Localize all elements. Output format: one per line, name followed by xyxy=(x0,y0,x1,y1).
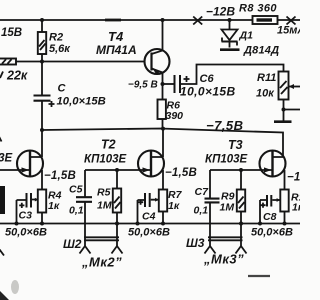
svg-text:КП103Е: КП103Е xyxy=(84,154,127,166)
svg-text:22к: 22к xyxy=(6,69,28,83)
svg-text:0,1: 0,1 xyxy=(194,205,209,217)
svg-text:50,0×6В: 50,0×6В xyxy=(251,227,293,239)
svg-text:−1,5В: −1,5В xyxy=(165,167,197,179)
svg-text:390: 390 xyxy=(166,110,184,122)
svg-text:С3: С3 xyxy=(19,210,33,222)
svg-text:5,6к: 5,6к xyxy=(49,43,71,55)
svg-text:Д814Д: Д814Д xyxy=(243,45,279,57)
svg-text:С7: С7 xyxy=(195,186,210,198)
svg-text:Т3: Т3 xyxy=(228,138,243,152)
svg-text:КП103Е: КП103Е xyxy=(0,153,13,165)
svg-text:15мА: 15мА xyxy=(277,25,300,37)
svg-text:−9,5 В: −9,5 В xyxy=(128,80,158,91)
svg-text:КП103Е: КП103Е xyxy=(205,154,248,166)
svg-text:МП41А: МП41А xyxy=(96,43,137,57)
svg-text:50,0×6В: 50,0×6В xyxy=(5,227,47,239)
svg-text:С8: С8 xyxy=(263,211,277,223)
svg-text:15В: 15В xyxy=(1,27,22,39)
svg-text:Т4: Т4 xyxy=(108,29,124,44)
svg-text:С4: С4 xyxy=(142,211,156,223)
svg-text:С: С xyxy=(58,83,67,95)
svg-text:С6: С6 xyxy=(200,73,215,85)
svg-text:10к: 10к xyxy=(256,88,275,100)
svg-text:С5: С5 xyxy=(69,184,83,196)
svg-text:10,0×15В: 10,0×15В xyxy=(57,96,106,108)
svg-text:1к: 1к xyxy=(168,200,180,212)
svg-text:0,1: 0,1 xyxy=(69,205,84,217)
svg-text:1М: 1М xyxy=(220,202,235,214)
svg-text:1к: 1к xyxy=(292,202,300,214)
svg-text:R5: R5 xyxy=(97,187,111,199)
svg-text:10,0×15В: 10,0×15В xyxy=(180,85,236,99)
svg-text:Т2: Т2 xyxy=(101,138,116,152)
svg-text:R11: R11 xyxy=(257,72,276,84)
svg-text:−1,5В: −1,5В xyxy=(287,172,300,184)
svg-text:„Мк2”: „Мк2” xyxy=(81,255,122,270)
svg-text:Ш2: Ш2 xyxy=(63,237,82,251)
svg-text:„Мк3”: „Мк3” xyxy=(203,252,244,267)
svg-text:−1,5В: −1,5В xyxy=(44,170,76,182)
svg-text:−12В: −12В xyxy=(206,5,235,19)
svg-text:−7,5В: −7,5В xyxy=(206,118,244,133)
svg-text:Ш3: Ш3 xyxy=(186,236,205,250)
svg-text:R8 360: R8 360 xyxy=(239,3,277,15)
svg-text:1М: 1М xyxy=(97,200,112,212)
svg-text:R2: R2 xyxy=(49,32,63,44)
svg-text:1к: 1к xyxy=(48,200,60,212)
svg-text:Д1: Д1 xyxy=(239,30,254,42)
svg-text:50,0×6В: 50,0×6В xyxy=(128,227,170,239)
